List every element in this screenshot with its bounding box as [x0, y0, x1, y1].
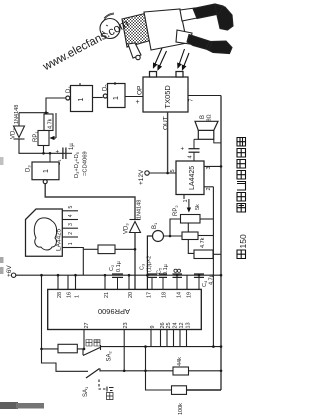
inverter gates D4 D5 [66, 84, 125, 112]
wire C6 to APR9600 [176, 277, 178, 289]
wire APR9600 pin 28 stub [57, 275, 59, 289]
person figure [100, 4, 233, 60]
svg-text:RP2: RP2 [173, 205, 179, 216]
wire LA4425 pin 1 [183, 195, 185, 200]
svg-text:SA2: SA2 [107, 350, 113, 361]
electrolytic cap C6 plates [173, 274, 183, 277]
svg-text:16: 16 [67, 292, 73, 298]
svg-text:OUT: OUT [163, 116, 170, 130]
wire APR9600 pin 19 stub [186, 275, 188, 289]
wire C4 to supply rail [198, 274, 200, 275]
wire D5 out to D4 in [93, 97, 103, 99]
coat / skirt [144, 9, 187, 50]
svg-text:SA1: SA1 [83, 386, 89, 397]
pot RP1 [38, 131, 49, 146]
wire APR9600 pin 16 stub [67, 275, 69, 289]
decoupling caps row above APR9600 [112, 269, 204, 289]
wire mic B1 to load resistor [164, 235, 183, 237]
svg-text:1N4148: 1N4148 [14, 105, 20, 124]
svg-text:=CD4069: =CD4069 [83, 151, 89, 176]
RP1 wiper arrow [51, 137, 57, 139]
svg-text:7: 7 [189, 99, 195, 102]
svg-text:24: 24 [173, 322, 179, 328]
wire APR9600 pin 21 stub [104, 275, 106, 289]
svg-text:100k: 100k [178, 403, 184, 415]
electrolytic C6 polarity circles [174, 269, 177, 272]
wire package pin 1 to supply rail [78, 248, 83, 276]
wire APR9600 pin 1 stub [75, 275, 77, 289]
mic B1 [153, 231, 164, 242]
wire C2 to APR9600 [117, 277, 119, 289]
svg-text:1: 1 [78, 98, 85, 102]
scan smudges [0, 402, 18, 409]
svg-text:150: 150 [238, 234, 248, 248]
svg-text:OP: OP [137, 86, 144, 95]
capacitor C1 plate 2 [65, 148, 67, 160]
svg-text:3: 3 [68, 223, 74, 226]
caption column [237, 138, 246, 259]
thigh 2 [176, 30, 192, 44]
switch SA2 blade [83, 348, 100, 356]
wire 44k to right rail [189, 370, 222, 372]
diode VD3 [130, 220, 141, 290]
output cap plate 1 [189, 151, 200, 153]
wire resistor to VD3 node [115, 248, 135, 250]
amp pin wires [204, 166, 221, 346]
wire VD2 anode lead [18, 113, 20, 126]
resistor 4.7k [44, 114, 53, 131]
svg-text:9: 9 [150, 325, 156, 328]
svg-text:C5: C5 [157, 267, 163, 274]
svg-text:21: 21 [104, 292, 110, 298]
wire APR9600 pin 25 stub [166, 330, 168, 347]
svg-text:5: 5 [170, 169, 176, 172]
wire SA1 contact to 44k [100, 370, 173, 372]
svg-text:0.1µ: 0.1µ [163, 263, 169, 275]
wire APR9600 pin 27 stub [83, 330, 85, 349]
wire H2 to right rail [213, 253, 221, 255]
svg-text:8Ω: 8Ω [207, 114, 213, 121]
pictorial LA4425 package [26, 209, 63, 256]
D3 output wire to VD3 [45, 184, 135, 220]
wire C4 to APR9600 [198, 277, 200, 289]
wire mic B1 to APR9600 pin 17 [147, 236, 152, 289]
package pin 3 stub [62, 227, 78, 229]
switch SA1 blade [86, 369, 100, 379]
bottom pin stubs and bus [84, 330, 221, 372]
svg-text:18: 18 [162, 292, 168, 298]
wire +12V to LA4425 pin 5 [149, 172, 176, 174]
svg-text:23: 23 [123, 322, 129, 328]
svg-text:4.7k: 4.7k [200, 237, 206, 248]
svg-text:1: 1 [183, 199, 189, 202]
switch SA1 [86, 369, 221, 392]
capacitor C5 plates [159, 274, 167, 277]
svg-text:25: 25 [166, 322, 172, 328]
svg-text:1: 1 [75, 295, 81, 298]
head [100, 19, 120, 39]
package pin 5 stub [62, 210, 78, 212]
wire left rail to resistor [42, 348, 59, 350]
wire RP1 bottom lead [43, 146, 45, 154]
package pin 2 stub [62, 236, 78, 238]
top rail wire [19, 112, 49, 114]
diode VD2 triangle [14, 126, 25, 138]
wire APR9600 pin 26 stub [160, 330, 162, 347]
wire pin7 to right rail [188, 95, 221, 97]
speaker B cone [195, 121, 218, 130]
svg-text:1µ: 1µ [69, 143, 75, 150]
mic resistor [182, 232, 198, 240]
svg-text:5k: 5k [195, 204, 201, 210]
svg-text:27: 27 [84, 322, 90, 328]
svg-text:+: + [56, 150, 60, 156]
svg-text:LA4425: LA4425 [56, 228, 63, 251]
gate power stubs [80, 82, 115, 86]
svg-text:RP1: RP1 [33, 131, 39, 142]
svg-text:5: 5 [68, 206, 74, 209]
capacitor C1 plate 1 [62, 148, 64, 160]
RP2 wiper arrow [188, 199, 190, 212]
wire APR9600 pin 24 stub [173, 330, 175, 347]
package pin 4 stub [62, 219, 78, 221]
wire APR9600 pin 23 stub [123, 330, 125, 372]
resistor 44k [173, 367, 189, 375]
svg-text:D5: D5 [103, 84, 109, 91]
svg-text:1N4148: 1N4148 [137, 200, 143, 219]
wire C5 to APR9600 [162, 277, 164, 289]
svg-text:2: 2 [68, 232, 74, 235]
svg-text:+12V: +12V [138, 169, 145, 185]
capacitor C4 plates [194, 274, 204, 277]
output electrolytic cap [189, 139, 200, 161]
right rail R2 [220, 96, 222, 391]
thigh 1 [180, 8, 197, 21]
wire LA4425 pin 3 to right rail [204, 165, 221, 167]
boot 1 (black) [193, 4, 233, 30]
wire C3 to APR9600 [151, 277, 153, 289]
svg-text:44k: 44k [177, 357, 183, 366]
torso hatched jacket [122, 13, 152, 47]
svg-text:B1: B1 [152, 222, 158, 229]
svg-text:D4: D4 [66, 86, 72, 93]
wire APR9600 pin 20 stub [128, 275, 130, 289]
broadcast label near SA2 [86, 340, 100, 347]
sound-wave arrows toward sensor [154, 48, 190, 70]
svg-text:TX05D: TX05D [163, 85, 172, 109]
amplifier LA4425 [176, 161, 204, 195]
wire RP2 right terminal to mid rail [200, 218, 213, 220]
wire mic resistor to mid rail [198, 235, 213, 237]
resistor H2 [194, 250, 213, 259]
svg-text:12: 12 [179, 322, 185, 328]
record button contact [106, 387, 108, 392]
wire +6V supply rail [16, 274, 221, 276]
svg-text:C3: C3 [140, 263, 146, 270]
wire mid vertical rail [212, 187, 214, 347]
switch SA2 contact [100, 345, 102, 350]
speaker B body [198, 130, 214, 139]
speaker B 8ohm [194, 121, 221, 143]
svg-text:4.7µ: 4.7µ [209, 273, 215, 285]
bottom left: resistor and switch SA2 [58, 344, 77, 353]
svg-text:C4: C4 [202, 280, 208, 287]
record button symbol [109, 388, 114, 391]
detector: diode VD2 [14, 113, 66, 154]
svg-text:D3: D3 [26, 165, 32, 172]
capacitor C3 plates [147, 274, 157, 277]
wire ground bus [101, 346, 222, 348]
svg-text:(1)µ×2: (1)µ×2 [147, 256, 153, 272]
diode VD2 cathode bar [14, 138, 25, 140]
wire LA4425 pin 2 [204, 186, 213, 188]
wire speaker lead A [194, 138, 198, 140]
wire bus down to 100k [146, 347, 172, 390]
wire RP2 bottom to resistor H2 [188, 223, 194, 253]
svg-text:13: 13 [186, 322, 192, 328]
package pin 1 stub [62, 247, 78, 249]
wire D4 out to top rail [46, 98, 66, 113]
wire left rail down to SA1 [42, 275, 89, 371]
pot RP2 [170, 195, 213, 254]
wire speaker lead B to right rail [214, 139, 221, 143]
svg-text:+: + [136, 99, 140, 106]
resistor near rail (R to APR) [98, 245, 115, 254]
svg-text:VD2: VD2 [11, 128, 17, 139]
svg-text:+: + [181, 147, 185, 153]
wire TX05D + to D5 [125, 96, 143, 98]
svg-text:1: 1 [43, 169, 50, 173]
svg-text:C2: C2 [109, 264, 115, 271]
wire cap to speaker [193, 139, 195, 148]
svg-text:LA4425: LA4425 [189, 166, 196, 190]
OUT wire down [167, 112, 169, 173]
svg-text:APR9600: APR9600 [98, 307, 130, 316]
wire APR9600 pin 9 stub [150, 330, 152, 347]
wire C1 right lead [66, 152, 72, 154]
svg-text:1: 1 [113, 96, 120, 100]
wire LA4425 pin 4 lead [193, 152, 195, 161]
wire APR9600 pin 13 stub [186, 330, 188, 347]
APR9600 IC [48, 289, 202, 329]
svg-text:14: 14 [177, 292, 183, 298]
resistor 100k [172, 386, 187, 395]
pot RP2 body [181, 215, 201, 224]
inverter D3 [32, 153, 59, 183]
svg-text:VD3: VD3 [124, 223, 130, 234]
svg-text:D3+D4+D5: D3+D4+D5 [74, 151, 80, 178]
svg-text:17: 17 [147, 292, 153, 298]
svg-text:4: 4 [68, 214, 74, 217]
wire 100k to right rail [187, 389, 222, 391]
svg-text:B: B [200, 115, 206, 119]
svg-text:4: 4 [188, 155, 194, 158]
record label near SA1 [107, 393, 114, 400]
svg-text:0.1µ: 0.1µ [116, 260, 122, 272]
wire RP1 wiper to top rail [55, 113, 57, 138]
wire resistor left lead [83, 248, 98, 250]
arm and hand [128, 43, 141, 58]
wire APR9600 pin 12 stub [179, 330, 181, 347]
wire RP2 left terminal to mic node [170, 219, 181, 236]
output cap plate 2 [189, 148, 200, 150]
dashed link SA1 to record button [99, 380, 107, 390]
switch SA1 contact [99, 369, 101, 372]
svg-text:2: 2 [206, 187, 212, 190]
capacitor C1 [63, 148, 72, 160]
wire VD2 cathode to C1 node [19, 139, 65, 153]
wires: gate chain [19, 82, 221, 390]
svg-text:1: 1 [68, 242, 74, 245]
svg-text:19: 19 [187, 292, 193, 298]
svg-text:28: 28 [57, 292, 63, 298]
boot 2 (black) [187, 35, 232, 54]
svg-text:20: 20 [128, 292, 134, 298]
capacitor C2 plates [112, 274, 123, 277]
svg-text:4.7k: 4.7k [48, 118, 54, 129]
sensor TX05D [143, 72, 188, 113]
wire resistor to SA2 pivot [77, 349, 83, 355]
top pin stubs [58, 275, 187, 289]
